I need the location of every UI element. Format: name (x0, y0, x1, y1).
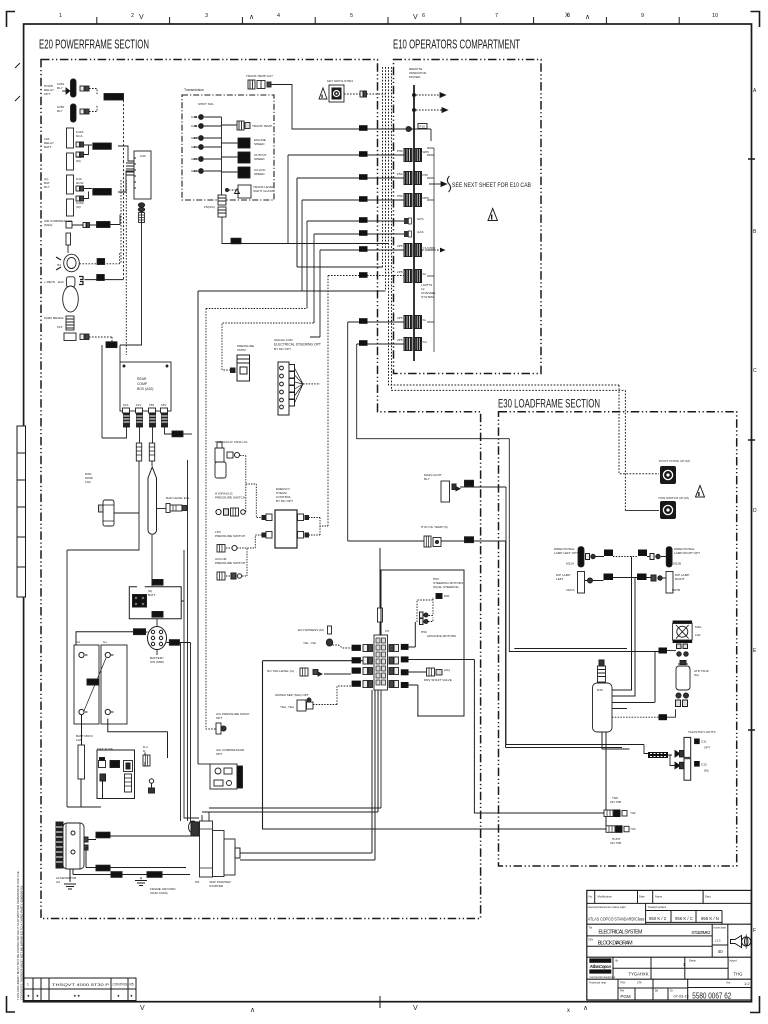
svg-text:RIGHT: RIGHT (675, 577, 685, 581)
svg-text:Tol: Tol (589, 926, 593, 930)
svg-text:OPT: OPT (44, 92, 50, 96)
svg-text:D51: D51 (444, 594, 450, 598)
svg-text:C31: C31 (701, 740, 707, 744)
svg-text:M2B1: M2B1 (605, 551, 613, 555)
svg-text:NCA: NCA (76, 134, 83, 138)
wire key switch to bus (344, 93, 360, 95)
svg-text:(M): (M) (76, 205, 81, 209)
svg-text:1:2.5: 1:2.5 (715, 939, 721, 943)
svg-text:SU: SU (423, 340, 427, 344)
battery isolator S5B (148, 627, 167, 650)
pins main relay rows (76, 142, 80, 147)
svg-text:D-: D- (143, 749, 146, 753)
svg-text:!: ! (698, 492, 699, 497)
svg-text:AtlasCopco: AtlasCopco (589, 964, 612, 969)
svg-text:40: 40 (718, 949, 724, 954)
dotted arrow spare 2 (416, 109, 442, 111)
svg-text:GPS: GPS (417, 217, 424, 221)
svg-text:C5A4: C5A4 (88, 681, 96, 685)
svg-text:COMP: COMP (137, 382, 148, 386)
svg-text:DRV SHAFT VALVE: DRV SHAFT VALVE (424, 678, 452, 682)
svg-text:P50: P50 (397, 194, 403, 198)
batteries G1 (74, 645, 99, 724)
svg-text:1: 1 (59, 13, 62, 19)
svg-text:ELECTRICAL SYSTEM: ELECTRICAL SYSTEM (598, 930, 643, 936)
wire rows to bus left (288, 155, 404, 244)
svg-text:10A: 10A (76, 738, 82, 742)
svg-text:1:2: 1:2 (744, 981, 750, 986)
alternator wires (88, 836, 192, 840)
svg-text:THSQVT 4000 5T30 P: THSQVT 4000 5T30 P (52, 983, 110, 987)
svg-text:E2A: E2A (98, 260, 104, 264)
label column line (427, 148, 434, 352)
right designator boxes (401, 644, 409, 688)
connector row Y/U PRO (404, 244, 412, 257)
hydraulic pressure switch (216, 509, 221, 514)
left revision strip (17, 426, 26, 597)
svg-text:ELECTRICAL STEERING OPT: ELECTRICAL STEERING OPT (274, 343, 321, 347)
svg-text:KEY SWTG S?901: KEY SWTG S?901 (327, 79, 353, 83)
wires from terminals (102, 345, 127, 438)
ground frame (135, 881, 147, 886)
svg-text:L/AC2: L/AC2 (98, 223, 107, 227)
svg-text:HYDRAULIC TANK LVL: HYDRAULIC TANK LVL (215, 440, 248, 444)
svg-text:PGM: PGM (620, 994, 631, 999)
svg-text:DIN: DIN (589, 938, 594, 942)
svg-text:M2B3: M2B3 (605, 575, 613, 579)
corner bracket bottom-left (7, 996, 16, 1012)
svg-text:M2B4: M2B4 (638, 575, 646, 579)
svg-text:✦✦: ✦✦ (73, 994, 81, 999)
svg-text:REAR: REAR (137, 377, 147, 381)
svg-text:D: D (753, 508, 757, 514)
svg-text:✦: ✦ (27, 994, 31, 999)
svg-text:∧: ∧ (583, 1005, 588, 1012)
svg-text:L/MAIN RL: L/MAIN RL (94, 145, 111, 149)
svg-text:BY MC OPT: BY MC OPT (274, 347, 291, 351)
svg-text:2P5: 2P5 (397, 270, 403, 274)
svg-text:5: 5 (350, 13, 353, 19)
wire tow switch (625, 510, 659, 512)
connector pins relay K250 (80, 109, 84, 114)
main light relay (441, 481, 450, 502)
row F10 connector (406, 124, 427, 132)
box pin left 1 (266, 514, 272, 521)
key switch S901 (329, 85, 344, 102)
svg-text:6: 6 (422, 13, 425, 19)
svg-text:C2A2: C2A2 (97, 867, 105, 871)
svg-text:X: X (565, 13, 569, 19)
warning triangle E30 (696, 486, 705, 498)
key switch S901 warning triangle (319, 88, 327, 99)
fuse above strip (378, 608, 383, 622)
svg-text:M3A: M3A (695, 625, 702, 629)
svg-text:BATT: BATT (44, 145, 52, 149)
svg-text:+ RETN: + RETN (44, 280, 55, 284)
connector row SL2 (404, 316, 412, 329)
alternator body (63, 823, 84, 869)
corner bracket top-left (7, 12, 16, 28)
svg-text:CONTENTS THEREOF MUST NOT BE I: CONTENTS THEREOF MUST NOT BE IMPARTED TO… (20, 885, 24, 1000)
node junction dots (413, 94, 416, 97)
svg-text:C20: C20 (108, 344, 114, 348)
svg-text:TAIL/STOP LIGHTS: TAIL/STOP LIGHTS (688, 730, 716, 734)
directional lamp left (578, 547, 584, 567)
wires relays to A30 (84, 145, 93, 199)
terminal K5V (161, 408, 168, 413)
connector strip (374, 635, 388, 690)
d+ connector (143, 755, 150, 766)
svg-text:∧: ∧ (249, 14, 254, 21)
svg-text:Transmission: Transmission (184, 88, 204, 92)
svg-text:2TA: 2TA (637, 981, 642, 985)
svg-text:✦: ✦ (117, 994, 121, 999)
svg-text:F31: F31 (660, 716, 666, 720)
svg-text:BATT: BATT (148, 593, 156, 597)
svg-text:C208: C208 (401, 684, 409, 688)
svg-text:NCW: NCW (76, 181, 83, 185)
svg-text:M27A: M27A (567, 588, 576, 592)
svg-text:SYSTEM: SYSTEM (421, 295, 434, 299)
svg-text:V: V (139, 14, 144, 21)
svg-text:F5(N/C): F5(N/C) (204, 205, 215, 209)
terminal K53 (149, 408, 156, 413)
svg-text:F5A: F5A (397, 172, 404, 176)
hydraulic tank level sensor (215, 448, 224, 462)
svg-text:F10: F10 (420, 125, 426, 129)
corner bracket bottom-right (750, 996, 760, 1013)
svg-text:HYD OIL TEMP (S): HYD OIL TEMP (S) (421, 525, 448, 529)
svg-text:C203: C203 (352, 669, 360, 673)
svg-text:5580 0067 62: 5580 0067 62 (692, 991, 731, 1001)
svg-text:CONTROL: CONTROL (113, 983, 129, 987)
fuse F1 (136, 443, 141, 461)
svg-text:EO HARNESS (M): EO HARNESS (M) (298, 628, 324, 632)
shift solenoid connectors CAB1-GB6 (199, 115, 204, 174)
projection symbol (eye) (742, 937, 751, 946)
svg-text:SPEED: SPEED (254, 157, 265, 161)
svg-text:Dept: Dept (705, 895, 711, 899)
svg-text:K53: K53 (149, 403, 155, 407)
svg-text:C5A1: C5A1 (153, 613, 161, 617)
svg-text:ADVANCE MOTORS: ADVANCE MOTORS (427, 634, 456, 638)
svg-text:ST1100MK2: ST1100MK2 (691, 930, 711, 935)
svg-text:M21B: M21B (673, 562, 681, 566)
a/c pressure switch (216, 723, 221, 734)
svg-text:C205: C205 (401, 646, 409, 650)
svg-text:Dr: Dr (670, 989, 673, 993)
svg-text:2P5: 2P5 (397, 338, 403, 342)
svg-text:YEA, YEA: YEA, YEA (280, 705, 295, 709)
svg-text:3: 3 (205, 13, 208, 19)
svg-text:BY MC OPT: BY MC OPT (276, 499, 293, 503)
svg-text:OPT: OPT (704, 746, 710, 750)
svg-text:WATER SEP (S0A) OPT: WATER SEP (S0A) OPT (275, 693, 309, 697)
svg-text:F56: F56 (423, 173, 429, 177)
svg-text:GB 5: GB 5 (191, 157, 198, 161)
svg-text:SEE NEXT SHEET FOR E10 CAB: SEE NEXT SHEET FOR E10 CAB (452, 182, 531, 189)
see next sheet arrow (422, 176, 451, 252)
steering signal connector fan (278, 362, 289, 415)
svg-text:M2B2: M2B2 (639, 551, 647, 555)
operators bus main vertical (413, 85, 415, 361)
trans level sight glass (238, 185, 251, 198)
svg-text:PRESSURE SWITCH: PRESSURE SWITCH (215, 534, 245, 538)
svg-text:RAD LEVEL EXL: RAD LEVEL EXL (166, 496, 190, 500)
transmission box outline (182, 95, 274, 200)
horn H2 (64, 254, 80, 272)
svg-text:∧: ∧ (250, 1007, 255, 1014)
svg-text:C5A2: C5A2 (135, 630, 143, 634)
svg-text:V: V (413, 1005, 418, 1012)
svg-text:∧: ∧ (585, 14, 590, 21)
steering dotted circuit (417, 597, 433, 622)
box pin right 1 (298, 514, 304, 521)
dotted arrow spare 1 (416, 94, 440, 96)
trans temp gauge connector (248, 80, 255, 89)
starter wires from engine strip (240, 690, 372, 853)
svg-text:ATLAS COPCO STANDARD/Class: ATLAS COPCO STANDARD/Class (588, 917, 645, 922)
svg-text:Y/U PRO: Y/U PRO (423, 246, 436, 250)
svg-text:RLY: RLY (44, 185, 50, 189)
svg-text:ON 70B: ON 70B (610, 841, 621, 845)
svg-text:SW (S5B): SW (S5B) (150, 660, 164, 664)
svg-text:MP5: MP5 (423, 196, 430, 200)
top ruler ticks (97, 17, 679, 24)
svg-text:RLY: RLY (57, 86, 63, 90)
fuse element 3 (144, 753, 146, 767)
rear comp box A20 (120, 362, 171, 411)
svg-text:4: 4 (277, 13, 280, 19)
ATD tank (676, 666, 690, 690)
wire label C20 (106, 342, 117, 348)
projection symbol (speaker) (731, 936, 742, 948)
svg-text:LAMP RIGHT OPT: LAMP RIGHT OPT (674, 551, 700, 555)
svg-text:(GND C0A0): (GND C0A0) (150, 891, 168, 895)
svg-text:Apprd: Apprd (730, 959, 738, 963)
svg-text:THG: THG (734, 972, 743, 977)
svg-text:R5: R5 (130, 983, 134, 987)
LPV pressure switch (217, 545, 225, 553)
bus wire 1 (382, 67, 384, 267)
svg-text:✦: ✦ (36, 994, 40, 999)
svg-text:C32: C32 (701, 763, 707, 767)
bus wire 4 to E30 (392, 67, 626, 511)
svg-text:Modification: Modification (598, 895, 613, 899)
svg-text:SPEED: SPEED (254, 172, 265, 176)
air compressor sensor row (66, 222, 72, 229)
svg-text:SL: SL (423, 272, 427, 276)
svg-text:L/BAT RLY: L/BAT RLY (94, 191, 111, 195)
harness bundle (648, 752, 668, 758)
wire A30 to rear comp box (120, 212, 142, 363)
svg-text:Treated surface: Treated surface (648, 905, 667, 909)
A30 bottom connector (138, 203, 144, 207)
box pin left 2 (266, 532, 272, 539)
svg-text:C5: C5 (385, 629, 389, 633)
svg-text:F21: F21 (466, 539, 472, 543)
wire label L/WIRING (104, 94, 124, 101)
svg-text:x: x (567, 1008, 570, 1014)
svg-text:BLOCK DIAGRAM: BLOCK DIAGRAM (598, 941, 634, 947)
connector pins relay K251 (80, 86, 84, 91)
wire lpv to box (255, 535, 262, 548)
right frame ticks (748, 159, 755, 730)
dip lamp left (578, 572, 585, 594)
terminal K1V (136, 408, 143, 413)
svg-text:2P5: 2P5 (397, 244, 403, 248)
bus wire 3 to E30 (389, 67, 660, 474)
wire label C2T (231, 238, 241, 244)
svg-text:L/WIRING: L/WIRING (105, 95, 123, 99)
svg-text:PIVOT CNTRL UP (M): PIVOT CNTRL UP (M) (659, 459, 690, 463)
svg-text:GB 6: GB 6 (191, 169, 198, 173)
steering box outline (381, 570, 464, 716)
svg-text:CAB 1: CAB 1 (191, 115, 200, 119)
corner bracket top-right (751, 12, 760, 28)
svg-text:E10: E10 (58, 280, 64, 284)
svg-text:P50: P50 (397, 149, 403, 153)
svg-text:C2A1: C2A1 (97, 834, 105, 838)
svg-text:07-03-16: 07-03-16 (674, 995, 689, 999)
wire designator boxes column C2xx (359, 125, 368, 346)
svg-text:GAS: GAS (417, 230, 424, 234)
svg-text:SIGNAL FOR: SIGNAL FOR (274, 338, 293, 342)
svg-text:PARK BRAKE: PARK BRAKE (44, 316, 64, 320)
svg-text:(M): (M) (76, 159, 81, 163)
svg-text:G1: G1 (76, 640, 80, 644)
svg-text:G+: G+ (103, 640, 107, 644)
svg-text:(M): (M) (704, 769, 709, 773)
svg-text:2P5: 2P5 (397, 316, 403, 320)
svg-text:V: V (413, 14, 418, 21)
hyd oil temp sensor (424, 536, 431, 547)
svg-text:GB 4: GB 4 (191, 145, 198, 149)
tail lamp 2 (675, 762, 680, 768)
svg-text:F20: F20 (466, 482, 472, 486)
svg-text:NO TAN LEVEL (G): NO TAN LEVEL (G) (267, 669, 294, 673)
svg-text:XMTR: XMTR (237, 348, 247, 352)
tow switch connector (M) (660, 501, 676, 519)
svg-text:950 K / 2: 950 K / 2 (649, 916, 667, 921)
svg-text:C207: C207 (401, 671, 409, 675)
svg-text:MAX FUSE: MAX FUSE (97, 747, 113, 751)
battery switch box (129, 587, 181, 619)
accumulator pressure switch (217, 572, 225, 580)
svg-text:Issue date: Issue date (714, 926, 727, 930)
svg-text:C5A0: C5A0 (153, 581, 161, 585)
svg-text:ON 70B: ON 70B (610, 800, 621, 804)
svg-text:(M) EL STEERING: (M) EL STEERING (433, 585, 459, 589)
battery monitor fuse (78, 745, 85, 779)
water separator (297, 700, 306, 711)
alternator brush stack (56, 822, 63, 868)
D30 side wires (612, 652, 655, 709)
fan connector cluster (677, 644, 682, 649)
svg-text:M1: M1 (195, 880, 200, 884)
svg-text:9: 9 (641, 13, 644, 19)
svg-text:C201: C201 (352, 646, 360, 650)
svg-text:10: 10 (712, 13, 718, 19)
Atlas Copco logo (589, 958, 616, 978)
svg-text:✦: ✦ (130, 994, 134, 999)
svg-text:SPEED: SPEED (254, 142, 265, 146)
svg-text:Br: Br (616, 959, 619, 963)
svg-text:LEFT: LEFT (556, 577, 564, 581)
svg-text:PRESSURE SWITCH: PRESSURE SWITCH (215, 561, 245, 565)
svg-text:STARTER: STARTER (209, 884, 224, 888)
svg-text:1: 1 (683, 962, 686, 968)
svg-text:K1V: K1V (136, 403, 142, 407)
EO harness connector (328, 626, 332, 634)
connector row P50 (404, 149, 412, 162)
directional lamp right (666, 547, 672, 567)
svg-text:OPT: OPT (216, 752, 222, 756)
svg-text:LAMP LEFT OPT: LAMP LEFT OPT (554, 551, 578, 555)
wire F5 down to bus row (222, 217, 389, 244)
bus wire 2 (385, 67, 387, 291)
svg-text:C202: C202 (352, 659, 360, 663)
svg-text:7: 7 (495, 13, 498, 19)
battery switch contact block (133, 595, 147, 608)
svg-text:F: F (753, 928, 756, 934)
trans temp sensor (237, 121, 244, 130)
ground alternator (64, 884, 76, 889)
box pin right 2 (298, 532, 304, 539)
svg-text:A30: A30 (140, 154, 146, 158)
svg-text:10A: 10A (695, 633, 701, 637)
energy/steam control box (275, 510, 297, 548)
parking brake F15 (66, 316, 74, 330)
relay K250 (black pill) (71, 104, 77, 122)
svg-text:BOX (A20): BOX (A20) (137, 387, 153, 391)
wire accum dotted (226, 548, 247, 576)
svg-text:Construction Equipment: Construction Equipment (590, 976, 616, 979)
pressure transducer (237, 355, 250, 381)
drv shaft valve connector (427, 668, 435, 676)
svg-text:W05: W05 (423, 150, 430, 154)
svg-text:No.: No. (589, 895, 593, 899)
svg-text:TRANS TEMP GA?: TRANS TEMP GA? (246, 74, 273, 78)
wire gauge to bus (271, 85, 431, 142)
svg-text:TOW SWITCH UP (M): TOW SWITCH UP (M) (658, 496, 689, 500)
svg-text:V: V (140, 1005, 145, 1012)
connector GPS (404, 218, 411, 224)
svg-text:C2A0: C2A0 (148, 873, 156, 877)
E20 section dash-dot boundary (41, 60, 481, 919)
ATD connector cluster (676, 693, 681, 698)
tail lamp 1 (675, 751, 680, 757)
fuse below compressor (66, 233, 71, 245)
coolant bottle (148, 467, 157, 534)
fuel sender E10 (66, 277, 75, 287)
wire label BAT RLY (93, 189, 112, 196)
left frame marks (15, 63, 20, 101)
no tank level sensor (300, 668, 308, 676)
svg-text:SIGHT GLASS: SIGHT GLASS (253, 189, 274, 193)
svg-text:Y02: Y02 (630, 811, 636, 815)
relay K251 (black pill) (71, 79, 77, 97)
svg-text:CAB 2: CAB 2 (191, 124, 200, 128)
svg-text:(2A): (2A) (444, 668, 450, 672)
svg-text:C206: C206 (401, 658, 409, 662)
svg-text:Name: Name (655, 895, 663, 899)
svg-text:1: 1 (27, 983, 29, 987)
fuse stack F5 (218, 195, 226, 205)
svg-text:MOVED: MOVED (409, 75, 421, 79)
svg-text:M27B: M27B (672, 588, 680, 592)
controller A30 (134, 151, 151, 199)
